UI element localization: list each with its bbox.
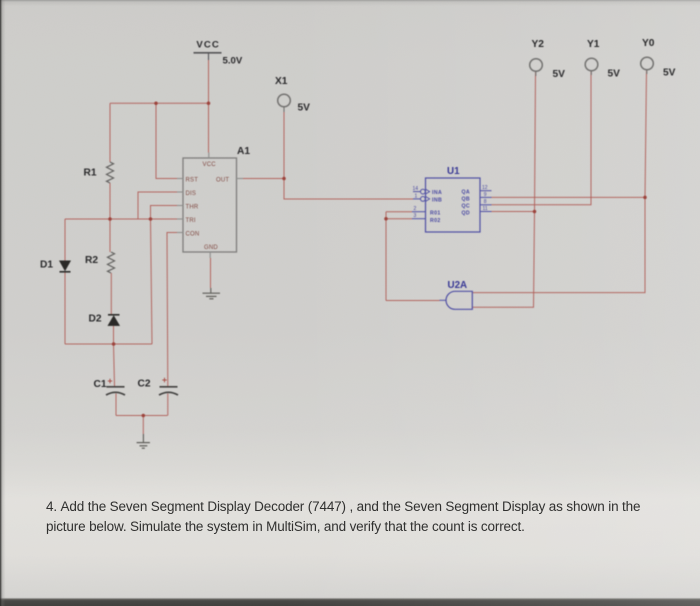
555 pin label CON (186, 231, 200, 237)
wire riser to diode bottom line (151, 219, 153, 344)
wire DIS branch (138, 192, 177, 219)
U1 pin label R01 (430, 211, 441, 217)
junction D2 bottom (112, 342, 116, 346)
U1 label (447, 166, 460, 177)
ground under 555 (203, 288, 221, 299)
Y0 5V label (663, 68, 676, 79)
diode D1 (60, 261, 71, 272)
resistor R2 (108, 252, 115, 273)
U1 pin number 14 (413, 186, 419, 192)
wire Y2 drop (535, 72, 536, 212)
wire QC to Y1 (492, 71, 592, 205)
wire D1 top (64, 219, 66, 261)
wire Y0 to gate upper input (473, 197, 646, 292)
VCC label (196, 40, 220, 51)
junction VCC rail end (207, 101, 211, 105)
X1 5V label (298, 103, 311, 114)
U1 pin label INB (432, 197, 442, 203)
wire TRI line (65, 218, 177, 220)
wire R2 top (109, 219, 111, 252)
U1 pin label R02 (430, 218, 441, 224)
ground bottom left (137, 434, 150, 448)
555 pin label GND (204, 245, 218, 251)
wire THR branch (151, 206, 178, 220)
555 pin label OUT (216, 177, 229, 183)
555 pin label TRI (186, 218, 196, 224)
wire OUT to INB (284, 179, 413, 200)
junction ground drop (142, 414, 146, 418)
diode D2 (108, 315, 120, 326)
U1 pin number 2 (414, 206, 417, 212)
C2 label (138, 379, 151, 390)
5.0V value label (223, 56, 243, 67)
555 pin label DIS (186, 191, 197, 197)
C1 plus sign (108, 379, 112, 383)
U1 pin INA clock bubble (413, 189, 430, 194)
capacitor C1 (106, 387, 125, 395)
junction Y2 on QD line (533, 210, 537, 214)
resistor R1 (107, 162, 114, 183)
555 pin label THR (186, 204, 199, 210)
wire gate output (386, 300, 440, 302)
wire diode bottom line (65, 343, 152, 345)
wire OUT to X1 junction (243, 178, 284, 180)
junction gate riser on R02 wire (384, 217, 388, 221)
wire Y2 to gate lower input (473, 212, 535, 308)
wire D1 bottom (64, 273, 66, 345)
R2 label (85, 255, 98, 266)
junction X1 on OUT wire (282, 177, 286, 181)
C2 plus sign (162, 378, 166, 382)
wire D2 bottom (113, 326, 115, 344)
wire C1 top (114, 344, 115, 386)
D1 label (40, 260, 53, 271)
wire R02 (386, 218, 412, 220)
wire 555 GND (210, 258, 212, 288)
wire C1 bottom (115, 394, 117, 416)
probe X1 (278, 94, 291, 112)
U1 stubs R01 R02 QA QB QC QD (412, 191, 492, 219)
wire R1 top (109, 103, 111, 162)
555 pin label VCC (203, 162, 217, 168)
wire QB line (492, 196, 646, 198)
U1 pin number 1 (415, 193, 418, 199)
wire VCC symbol to 555 VCC pin (208, 60, 210, 153)
Y0 label (642, 38, 655, 49)
U1 pin number 12 (482, 185, 488, 191)
wire ground drop (142, 416, 144, 435)
R1 label (84, 168, 97, 179)
junction RST riser on rail (154, 101, 158, 105)
Y2 5V label (553, 69, 566, 80)
wire R2 to D2 (110, 273, 112, 314)
junction Y0 on QB line (643, 196, 647, 200)
U1 pin label INA (432, 190, 442, 196)
wire VCC rail top (110, 102, 209, 104)
wire R1 bottom (109, 183, 111, 219)
U1 pin number 8 (484, 199, 487, 205)
555 pin label RST (186, 177, 199, 183)
wire gate output riser (385, 212, 387, 301)
Y1 label (587, 39, 600, 50)
U1 pin INB clock bubble (413, 197, 430, 202)
X1 label (275, 76, 288, 87)
D2 label (89, 314, 102, 325)
wire C2 bottom (167, 394, 169, 416)
U1 pin label QC (462, 203, 471, 209)
U1 pin number 11 (483, 206, 488, 212)
U1 pin label QD (462, 210, 471, 216)
U1 pin label QB (462, 196, 471, 202)
junction R1 bottom on TRI line (108, 217, 112, 221)
VCC power symbol (194, 53, 222, 60)
wire CON to C2 (167, 233, 177, 387)
555 pin stubs (177, 153, 243, 259)
wire X1 drop (283, 112, 285, 179)
timer U-A1 555 box (183, 158, 237, 252)
counter U1 box (426, 178, 481, 232)
wire Y0 drop (645, 71, 647, 198)
probe Y1 (585, 58, 598, 75)
wire capacitor bottom line (116, 415, 168, 417)
wire QD line (492, 211, 535, 213)
capacitor C2 (159, 387, 178, 395)
A1 label (237, 146, 250, 157)
junction THR riser on TRI line (149, 217, 153, 221)
U1 pin number 9 (484, 192, 487, 198)
U1 pin number 3 (414, 213, 417, 219)
U1 pin label QA (462, 189, 471, 195)
wire RST riser (156, 103, 177, 178)
Y2 label (532, 39, 545, 50)
probe Y2 (530, 59, 543, 76)
wire R01 (386, 211, 412, 213)
Y1 5V label (608, 69, 621, 80)
U2A label (448, 280, 468, 291)
probe Y0 (641, 57, 654, 74)
C1 label (94, 379, 107, 390)
AND gate U2A facing left (440, 291, 473, 309)
